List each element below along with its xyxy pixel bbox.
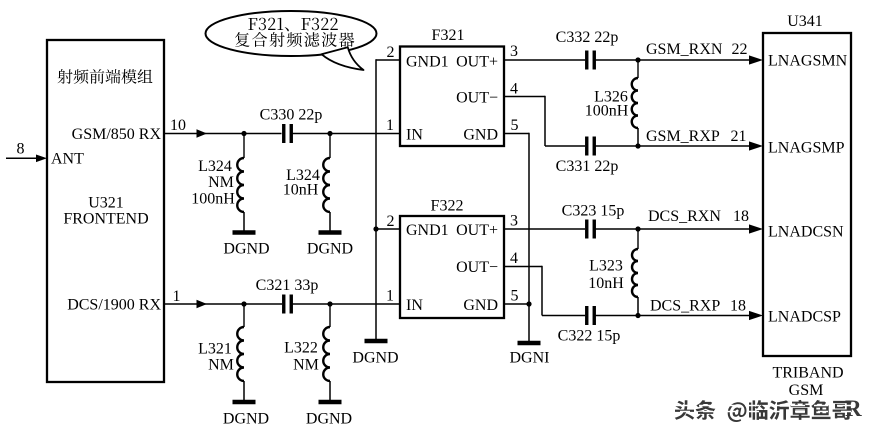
arrow into LNADCSN bbox=[749, 224, 763, 233]
svg-text:GSM/850 RX: GSM/850 RX bbox=[72, 126, 162, 143]
svg-text:NM: NM bbox=[208, 357, 234, 374]
svg-text:OUT−: OUT− bbox=[456, 90, 498, 107]
filter F322 box bbox=[400, 216, 504, 318]
ground DGND under L321 bbox=[233, 400, 256, 405]
capacitor C322 bbox=[587, 306, 595, 325]
svg-text:GSM_RXN: GSM_RXN bbox=[646, 41, 723, 58]
label DGND a bbox=[223, 241, 269, 258]
node junction GSM_RXN bbox=[635, 57, 640, 62]
svg-text:5: 5 bbox=[511, 288, 519, 305]
callout bubble ellipse bbox=[206, 11, 377, 56]
svg-text:DGND: DGND bbox=[223, 241, 269, 258]
wire F321 OUT− elbow bbox=[504, 96, 750, 146]
F321 pin number 4 bbox=[510, 81, 518, 98]
inductor L326 100nH bbox=[632, 60, 638, 146]
svg-text:LNAGSMP: LNAGSMP bbox=[768, 140, 845, 157]
svg-text:DGND: DGND bbox=[223, 411, 269, 428]
svg-text:L322: L322 bbox=[284, 340, 318, 357]
svg-text:C332 22p: C332 22p bbox=[556, 29, 619, 46]
arrow into LNAGSMP bbox=[749, 141, 763, 150]
label L321 NM bbox=[198, 340, 234, 373]
label C322 15p bbox=[558, 328, 621, 345]
svg-text:IN: IN bbox=[406, 127, 423, 144]
bubble text line2 复合射频滤波器 bbox=[235, 32, 354, 47]
svg-text:100nH: 100nH bbox=[585, 103, 629, 120]
F321 pin name IN bbox=[406, 127, 423, 144]
watermark 头条 @临沂章鱼哥R bbox=[675, 396, 864, 422]
U341 pin name LNADCSP bbox=[768, 309, 841, 326]
pin number 10 bbox=[170, 117, 186, 134]
U341 pin name LNADCSN bbox=[768, 224, 844, 241]
svg-text:DCS/1900 RX: DCS/1900 RX bbox=[67, 297, 161, 314]
capacitor C330 bbox=[284, 124, 292, 143]
F321 pin number 2 bbox=[387, 44, 395, 61]
arrow into LNAGSMN bbox=[749, 55, 763, 64]
node junction DCS wire left bbox=[241, 301, 246, 306]
node junction GSM wire right bbox=[327, 131, 332, 136]
svg-text:IN: IN bbox=[406, 297, 423, 314]
U341 pin name LNAGSMP bbox=[768, 140, 845, 157]
net label GSM_RXN bbox=[646, 41, 723, 58]
svg-text:L323: L323 bbox=[589, 258, 623, 275]
U321 text FRONTEND bbox=[63, 211, 148, 228]
wire F322 OUT− elbow bbox=[504, 266, 750, 316]
U321 pin label GSM/850 RX bbox=[72, 126, 162, 143]
wire F321 pin5 GND rail bbox=[504, 133, 529, 341]
svg-text:DGND: DGND bbox=[307, 241, 353, 258]
F321 pin name GND1 bbox=[406, 54, 449, 71]
label TRIBAND bbox=[772, 365, 843, 382]
svg-text:ANT: ANT bbox=[51, 151, 84, 168]
svg-text:R: R bbox=[845, 396, 862, 421]
svg-text:DGND: DGND bbox=[352, 350, 398, 367]
label C331 22p bbox=[556, 158, 619, 175]
capacitor C332 bbox=[587, 51, 595, 70]
label DGND e bbox=[352, 350, 398, 367]
pin number 1 (DCS) bbox=[173, 288, 181, 305]
svg-text:3: 3 bbox=[510, 43, 518, 60]
svg-text:FRONTEND: FRONTEND bbox=[63, 211, 148, 228]
inductor L324 (NM 100nH) bbox=[237, 134, 244, 232]
U321 pin label DCS/1900 RX bbox=[67, 297, 161, 314]
label L323 10nH bbox=[588, 258, 624, 293]
IC U321 RF front-end module box bbox=[47, 40, 164, 382]
label DGND d bbox=[306, 411, 352, 428]
F322 pin number 5 bbox=[511, 288, 519, 305]
callout bubble tail bbox=[322, 47, 364, 70]
capacitor C323 bbox=[587, 220, 595, 239]
label GSM bbox=[789, 382, 824, 399]
svg-text:DCS_RXN: DCS_RXN bbox=[648, 208, 721, 225]
svg-text:DCS_RXP: DCS_RXP bbox=[650, 298, 720, 315]
label U341 bbox=[787, 13, 823, 30]
ground DGND under L322 bbox=[319, 400, 342, 405]
label L326 100nH bbox=[585, 89, 629, 120]
svg-text:LNAGSMN: LNAGSMN bbox=[768, 53, 848, 70]
svg-text:10: 10 bbox=[170, 117, 186, 134]
svg-text:GND1: GND1 bbox=[406, 54, 449, 71]
ground DGND under L324b bbox=[319, 230, 342, 235]
svg-text:L321: L321 bbox=[198, 340, 232, 357]
U321 label 射频前端模组 bbox=[58, 69, 153, 84]
wire F322 pin5 stub bbox=[504, 303, 529, 305]
svg-text:1: 1 bbox=[386, 288, 394, 305]
svg-text:GSM_RXP: GSM_RXP bbox=[646, 128, 720, 145]
svg-text:LNADCSN: LNADCSN bbox=[768, 224, 844, 241]
F321 pin number 1 bbox=[386, 117, 394, 134]
pin number 22 bbox=[732, 41, 748, 58]
svg-text:1: 1 bbox=[173, 288, 181, 305]
svg-text:OUT+: OUT+ bbox=[456, 54, 498, 71]
net label DCS_RXN bbox=[648, 208, 721, 225]
node junction DCS wire right bbox=[327, 301, 332, 306]
F322 pin name GND bbox=[463, 297, 498, 314]
svg-text:TRIBAND: TRIBAND bbox=[772, 365, 843, 382]
IC U341 box bbox=[763, 33, 851, 356]
F322 pin number 1 bbox=[386, 288, 394, 305]
svg-text:L324: L324 bbox=[198, 158, 232, 175]
label L324 10nH bbox=[283, 167, 320, 199]
svg-text:GND: GND bbox=[463, 297, 498, 314]
inductor L321 (NM) bbox=[237, 304, 244, 400]
ground DGND under GND1 rail bbox=[365, 339, 388, 344]
svg-text:DGNI: DGNI bbox=[510, 350, 550, 367]
inductor L324 (10nH) bbox=[323, 134, 330, 232]
svg-text:OUT+: OUT+ bbox=[456, 222, 498, 239]
F321 pin name OUT+ bbox=[456, 54, 498, 71]
svg-text:10nH: 10nH bbox=[283, 182, 319, 199]
svg-text:4: 4 bbox=[510, 250, 518, 267]
svg-text:18: 18 bbox=[730, 298, 746, 315]
pin number 8 bbox=[17, 141, 25, 158]
net label GSM_RXP bbox=[646, 128, 720, 145]
F322 pin name OUT− bbox=[456, 259, 498, 276]
inductor L322 (NM) bbox=[323, 304, 330, 400]
label F321 bbox=[432, 27, 465, 44]
svg-text:2: 2 bbox=[387, 44, 395, 61]
arrow on GSM RX wire bbox=[197, 129, 208, 137]
label C330 22p bbox=[260, 107, 323, 124]
svg-text:C323 15p: C323 15p bbox=[562, 203, 625, 220]
net label DCS_RXP bbox=[650, 298, 720, 315]
F322 pin number 4 bbox=[510, 250, 518, 267]
svg-text:GSM: GSM bbox=[789, 382, 824, 399]
svg-text:4: 4 bbox=[510, 81, 518, 98]
svg-text:8: 8 bbox=[17, 141, 25, 158]
F321 pin number 5 bbox=[511, 117, 519, 134]
label DGND b bbox=[307, 241, 353, 258]
F322 pin name GND1 bbox=[406, 222, 449, 239]
F322 pin name IN bbox=[406, 297, 423, 314]
node junction GND1 rail bbox=[373, 226, 378, 231]
ground DGNI bbox=[518, 341, 541, 346]
svg-text:1: 1 bbox=[386, 117, 394, 134]
label F322 bbox=[431, 198, 464, 215]
F322 pin number 2 bbox=[387, 213, 395, 230]
U321 refdes text U321 bbox=[88, 195, 124, 212]
wire F321 OUT+ to LNAGSMN bbox=[504, 59, 750, 61]
svg-text:C331 22p: C331 22p bbox=[556, 158, 619, 175]
inductor L323 10nH bbox=[632, 229, 638, 316]
label C332 22p bbox=[556, 29, 619, 46]
filter F321 box bbox=[400, 47, 504, 147]
svg-text:3: 3 bbox=[510, 213, 518, 230]
label C323 15p bbox=[562, 203, 625, 220]
svg-text:18: 18 bbox=[733, 208, 749, 225]
svg-text:GND1: GND1 bbox=[406, 222, 449, 239]
svg-text:F322: F322 bbox=[431, 198, 464, 215]
svg-text:GND: GND bbox=[463, 127, 498, 144]
wire GSM/850 RX to F321 IN bbox=[164, 133, 400, 135]
wire ANT input bbox=[6, 157, 36, 159]
U321 pin label ANT bbox=[51, 151, 84, 168]
wire F321 pin2 GND1 rail bbox=[376, 59, 400, 339]
node junction GND rail pin5 F322 bbox=[526, 301, 531, 306]
pin number 18 upper bbox=[733, 208, 749, 225]
arrow into LNADCSP bbox=[749, 311, 763, 320]
capacitor C331 bbox=[587, 137, 595, 156]
label L322 NM bbox=[284, 340, 319, 374]
node junction GSM wire left bbox=[241, 131, 246, 136]
F321 pin name GND bbox=[463, 127, 498, 144]
svg-text:U341: U341 bbox=[787, 13, 823, 30]
svg-text:21: 21 bbox=[731, 128, 747, 145]
F321 pin name OUT− bbox=[456, 90, 498, 107]
svg-text:5: 5 bbox=[511, 117, 519, 134]
arrow into ANT pin bbox=[36, 155, 47, 163]
svg-text:100nH: 100nH bbox=[191, 191, 235, 208]
label C321 33p bbox=[256, 277, 319, 294]
svg-text:C322 15p: C322 15p bbox=[558, 328, 621, 345]
label DGND c bbox=[223, 411, 269, 428]
svg-text:NM: NM bbox=[293, 357, 319, 374]
svg-text:2: 2 bbox=[387, 213, 395, 230]
wire F322 pin2 stub bbox=[376, 228, 400, 230]
node junction DCS_RXP bbox=[635, 313, 640, 318]
label DGNI bbox=[510, 350, 550, 367]
svg-text:NM: NM bbox=[208, 174, 234, 191]
pin number 18 lower bbox=[730, 298, 746, 315]
arrow on DCS RX wire bbox=[197, 300, 208, 308]
label L324 NM 100nH bbox=[191, 158, 235, 208]
pin number 21 bbox=[731, 128, 747, 145]
svg-text:22: 22 bbox=[732, 41, 748, 58]
svg-text:10nH: 10nH bbox=[588, 275, 624, 292]
svg-text:U321: U321 bbox=[88, 195, 124, 212]
svg-text:C330 22p: C330 22p bbox=[260, 107, 323, 124]
svg-text:LNADCSP: LNADCSP bbox=[768, 309, 841, 326]
wire DCS/1900 RX to F322 IN bbox=[164, 303, 400, 305]
F322 pin number 3 bbox=[510, 213, 518, 230]
ground DGND under L324a bbox=[233, 230, 256, 235]
svg-text:OUT−: OUT− bbox=[456, 259, 498, 276]
svg-text:DGND: DGND bbox=[306, 411, 352, 428]
svg-text:F321: F321 bbox=[432, 27, 465, 44]
U341 pin name LNAGSMN bbox=[768, 53, 848, 70]
svg-text:C321 33p: C321 33p bbox=[256, 277, 319, 294]
node junction GSM_RXP bbox=[635, 143, 640, 148]
bubble text line1 F321、F322 bbox=[248, 18, 337, 32]
wire F322 OUT+ to LNADCSN bbox=[504, 228, 750, 230]
node junction DCS_RXN bbox=[635, 226, 640, 231]
F321 pin number 3 bbox=[510, 43, 518, 60]
capacitor C321 bbox=[284, 295, 292, 314]
F322 pin name OUT+ bbox=[456, 222, 498, 239]
